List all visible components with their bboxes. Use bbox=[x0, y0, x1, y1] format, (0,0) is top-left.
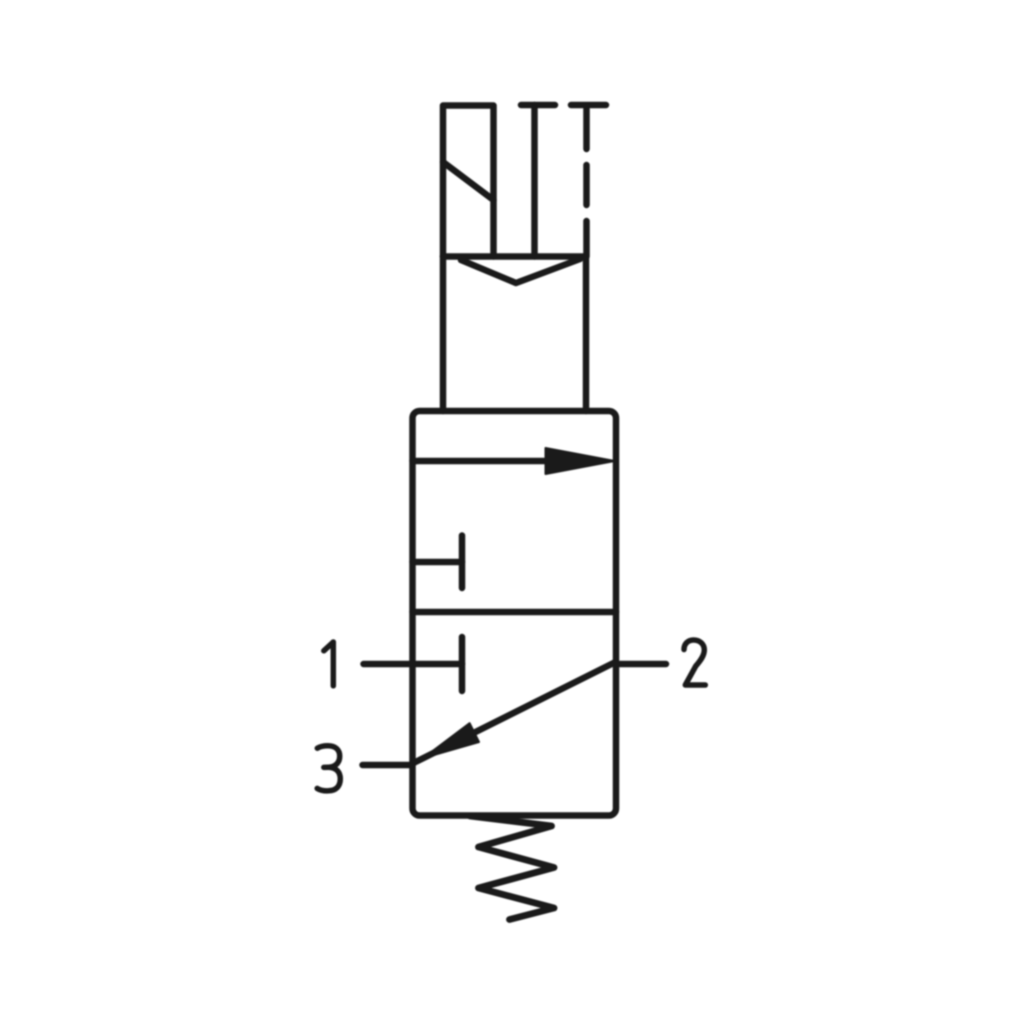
plunger stem vertical bbox=[531, 105, 538, 257]
solenoid coil box bbox=[443, 106, 494, 257]
flow path 2 to 3 diagonal (shaft) bbox=[414, 662, 616, 763]
blocked port symbol position a (bar) bbox=[459, 536, 466, 589]
flow path arrow position a (shaft) bbox=[413, 458, 581, 465]
blocked port symbol position b (bar) bbox=[459, 637, 466, 691]
flow path 2 to 3 diagonal (head) bbox=[423, 723, 479, 758]
manual override dashed vertical bbox=[583, 109, 590, 257]
actuator housing top edge bbox=[443, 253, 586, 260]
plunger stem T-bar bbox=[521, 102, 555, 109]
solenoid diagonal stroke bbox=[443, 162, 494, 200]
port 1 line bbox=[364, 661, 413, 668]
position divider line bbox=[413, 609, 617, 616]
flow path arrow position a (head) bbox=[546, 448, 615, 474]
return spring bbox=[470, 816, 554, 920]
port label 3 bbox=[317, 746, 340, 791]
port 3 line bbox=[363, 762, 413, 769]
blocked port symbol position b (stub) bbox=[413, 661, 463, 668]
port label 2 bbox=[684, 640, 705, 685]
actuator housing left wall bbox=[440, 257, 447, 412]
valve body outline bbox=[413, 411, 617, 816]
port 2 line bbox=[616, 661, 666, 668]
port label 1 bbox=[324, 642, 334, 686]
blocked port symbol position a (stub) bbox=[413, 559, 463, 566]
manual override T-bar bbox=[571, 102, 606, 109]
actuator housing right wall bbox=[583, 257, 590, 412]
poppet seat chevron bbox=[461, 259, 580, 283]
